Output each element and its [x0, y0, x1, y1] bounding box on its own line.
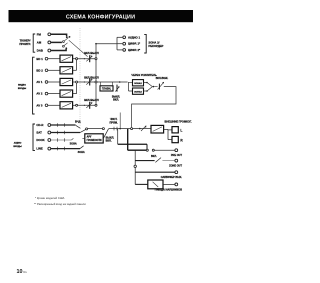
wire zone amp splitter: [129, 82, 133, 91]
label S6: [106, 136, 115, 143]
wire speaker thick lower: [128, 149, 146, 151]
svg-text:10: 10: [17, 269, 23, 275]
main zone box DSP: [100, 86, 113, 91]
svg-text:CD-R: CD-R: [36, 123, 43, 127]
node bus 2: [76, 81, 78, 83]
wire rec stub 1: [117, 36, 122, 38]
node preout 1: [146, 149, 148, 151]
svg-text:ВКЛ./ВЫКЛ: ВКЛ./ВЫКЛ: [84, 75, 99, 79]
converter box U3: [60, 78, 73, 85]
wire rec out: [96, 43, 117, 45]
svg-text:DAB: DAB: [37, 49, 43, 53]
node rec feed: [95, 43, 97, 45]
crossover ticks CD: [58, 123, 65, 127]
jack AM: [48, 41, 51, 44]
wire amp A out: [144, 82, 147, 84]
wire tone box stub left: [82, 137, 84, 139]
jack CD: [48, 124, 51, 127]
wire U5 out: [73, 104, 77, 106]
svg-text:Ru: Ru: [23, 270, 27, 274]
svg-text:AV 2: AV 2: [36, 92, 42, 96]
stub DSP left: [100, 82, 102, 86]
wire AUX1: [48, 93, 60, 95]
svg-text:ЗОНА3: ЗОНА3: [134, 90, 142, 93]
svg-text:ВКЛ./ВЫКЛ: ВКЛ./ВЫКЛ: [84, 51, 99, 55]
switch contact DOCK: [71, 138, 73, 140]
converter box U2: [60, 67, 73, 74]
wire speaker splitter: [168, 129, 172, 139]
svg-text:ВНЕШНИЕ ГРОМКОГ.: ВНЕШНИЕ ГРОМКОГ.: [165, 120, 192, 124]
bracket video inputs group: [33, 57, 35, 114]
node amp A: [146, 82, 148, 84]
switch S7 speaker relay in: [141, 126, 146, 131]
node main bus 3: [95, 104, 97, 106]
jack BD/DVD: [45, 57, 48, 60]
wire STB: [48, 69, 60, 71]
node preout 2: [152, 149, 154, 151]
svg-text:** Расширенный вход на задней: ** Расширенный вход на задней панели: [34, 202, 86, 206]
node input selector: [86, 128, 88, 130]
wire BD/DVD: [48, 58, 60, 60]
wire FM: [51, 34, 67, 36]
svg-text:ГЛАВН.: ГЛАВН.: [102, 88, 112, 91]
crossover ticks TV: [58, 131, 65, 135]
wire TV: [51, 132, 80, 134]
zone amp box B: [133, 88, 144, 94]
svg-text:AV 1: AV 1: [36, 80, 42, 84]
label audio inputs group: [13, 141, 21, 147]
wire speaker thick vertical: [127, 129, 129, 151]
svg-text:L: L: [180, 129, 182, 133]
crossover ticks PHONO: [58, 147, 65, 151]
label rec group: [148, 40, 163, 48]
bracket audio inputs group: [33, 124, 35, 150]
coupling ticks main path: [114, 127, 117, 131]
wire DAB: [51, 49, 66, 51]
svg-text:ПРЯМ.: ПРЯМ.: [109, 120, 118, 124]
jack AUX1: [45, 92, 48, 95]
svg-text:FM: FM: [37, 32, 42, 36]
svg-text:AV 3: AV 3: [36, 103, 42, 107]
wire rec stub 3: [117, 49, 122, 51]
svg-text:BD 2: BD 2: [36, 68, 43, 72]
bus video outputs upper: [76, 59, 78, 71]
label pure direct: [109, 117, 118, 124]
wire zone run 2: [78, 81, 96, 83]
switch S4 main zone: [115, 81, 120, 91]
svg-text:ЗОНА: ЗОНА: [70, 143, 77, 146]
wire main path left: [88, 128, 103, 130]
switch S5 ext amp: [154, 82, 164, 90]
wire AM: [51, 41, 62, 43]
svg-text:LINE: LINE: [36, 147, 43, 151]
svg-text:PRE OUT: PRE OUT: [171, 154, 183, 157]
wire phones feed: [135, 183, 147, 185]
zone amp box A: [133, 80, 144, 86]
switch contact PHONO: [80, 146, 84, 149]
svg-text:SAT: SAT: [36, 131, 42, 135]
switch S6 tone bypass: [104, 129, 109, 138]
wire AUX2: [48, 104, 60, 106]
wire rec split vertical: [116, 37, 118, 50]
wire CD: [51, 124, 76, 126]
jack DOCK: [48, 139, 51, 142]
selector contacts tuner: [63, 36, 71, 49]
page number: [17, 269, 28, 275]
svg-text:* Кроме моделей США: * Кроме моделей США: [35, 196, 64, 200]
jack PHONO: [48, 147, 51, 150]
jack TV: [48, 131, 51, 134]
converter box U1: [60, 55, 73, 62]
wire zone run 1: [78, 58, 96, 60]
svg-text:ЧЕРЕЗ УСИЛИТЕЛЬ: ЧЕРЕЗ УСИЛИТЕЛЬ: [131, 73, 157, 77]
wire cross merge: [147, 83, 152, 92]
jack DAB: [48, 49, 51, 52]
jack rec 2: [123, 42, 126, 45]
switch S2 zone run 2: [86, 79, 92, 86]
separator zone boundary: [79, 28, 81, 126]
tone box: [85, 134, 103, 143]
jack rec 3: [123, 49, 126, 52]
wire U4 out: [73, 93, 77, 95]
svg-text:ВКЛ.: ВКЛ.: [113, 98, 119, 101]
speaker relay box: [151, 125, 164, 133]
wire subwoofer: [135, 171, 175, 173]
wire U3 out: [73, 81, 77, 83]
node amp B: [146, 90, 148, 92]
wire preout: [154, 149, 174, 151]
crossover ticks DOCK: [58, 138, 65, 142]
switch S3 zone run 3: [86, 102, 92, 109]
wire speaker thick right stub: [146, 144, 148, 150]
jack mid bus: [134, 165, 136, 167]
svg-text:ВИДЕО: ВИДЕО: [18, 84, 26, 86]
svg-text:РЕКОРДЕР: РЕКОРДЕР: [148, 44, 163, 48]
svg-text:BD 1: BD 1: [36, 57, 43, 61]
switch S8 zone out: [155, 158, 174, 163]
node merge: [153, 86, 155, 88]
svg-text:ЦИФР. 1*: ЦИФР. 1*: [128, 42, 141, 46]
svg-text:AM: AM: [37, 41, 42, 45]
stub DSP right: [111, 82, 113, 86]
svg-text:ВХОДЫ: ВХОДЫ: [13, 146, 21, 148]
wire PHONO: [51, 148, 80, 150]
jack preout: [175, 149, 178, 152]
svg-text:ЗОНА2: ЗОНА2: [134, 82, 142, 85]
bus main vertical: [95, 44, 97, 105]
svg-text:ЦИФР. 2*: ЦИФР. 2*: [128, 48, 141, 52]
node tone in: [102, 128, 104, 130]
svg-text:АУДИО: АУДИО: [14, 141, 22, 144]
wire rec stub 2: [117, 43, 122, 45]
bus video outputs lower: [76, 82, 78, 94]
speaker R box: [172, 136, 178, 142]
wire zone out: [135, 160, 154, 162]
node pure direct: [119, 128, 121, 130]
bus output vertical: [134, 150, 136, 184]
jack AUX2: [45, 104, 48, 107]
label video inputs group: [18, 84, 26, 89]
title bar: [9, 10, 194, 22]
node pre relay: [139, 128, 141, 130]
svg-text:ВХОДЫ: ВХОДЫ: [18, 88, 26, 90]
node bus 3: [76, 104, 78, 106]
converter box U4: [60, 90, 73, 97]
svg-text:ПРОИГР.: ПРОИГР.: [19, 42, 31, 46]
bracket tuner group: [33, 34, 35, 52]
svg-text:ГРОМКОСТИ: ГРОМКОСТИ: [87, 139, 102, 142]
phones amp box: [148, 180, 163, 189]
svg-text:ВЧД: ВЧД: [75, 119, 81, 123]
wire speaker thick upper: [118, 143, 147, 145]
svg-text:ТЮНЕР/: ТЮНЕР/: [20, 38, 31, 42]
jack phones: [175, 183, 178, 186]
label S4: [112, 96, 121, 102]
wire relay out: [164, 128, 168, 130]
node loop join: [131, 128, 133, 130]
node bus 1: [76, 58, 78, 60]
wire U1 out: [73, 58, 77, 60]
jack FM: [48, 33, 51, 36]
switch S1 zone run 1: [86, 55, 92, 62]
wire amp B out: [144, 90, 147, 92]
jack rec 1: [123, 36, 126, 39]
label tuner group: [19, 38, 31, 46]
jack STB: [45, 69, 48, 72]
wire U2 out: [73, 69, 77, 71]
wire main zone: [97, 81, 128, 83]
node main bus 1: [95, 58, 97, 60]
svg-text:ГНЕЗДА НАУШНИКОВ: ГНЕЗДА НАУШНИКОВ: [155, 188, 182, 191]
jack subwoofer: [175, 171, 178, 174]
svg-text:ZONE OUT: ZONE OUT: [169, 164, 182, 167]
wire ext amp loop: [132, 87, 176, 130]
converter box U5: [60, 102, 73, 109]
selector contact ticks: [64, 38, 68, 46]
wire DOCK: [51, 139, 72, 141]
wire phones out: [163, 183, 175, 185]
svg-text:ВКЛ.: ВКЛ.: [151, 155, 157, 158]
svg-text:САБВУФЕР ВЫХ.: САБВУФЕР ВЫХ.: [161, 176, 183, 179]
wire GAME: [48, 81, 60, 83]
svg-text:АУДИО 1: АУДИО 1: [128, 35, 140, 39]
wire tone return vertical: [117, 129, 119, 144]
svg-text:ВКЛ.: ВКЛ.: [106, 139, 112, 143]
node main bus 2: [95, 81, 97, 83]
svg-text:ВКЛ./ВЫК.: ВКЛ./ВЫК.: [156, 77, 169, 80]
svg-text:ВКЛ./ВЫКЛ: ВКЛ./ВЫКЛ: [84, 98, 99, 102]
speaker L box: [172, 127, 178, 133]
jack zone out: [175, 159, 178, 162]
jack GAME: [45, 81, 48, 84]
wire zone run 3: [78, 104, 96, 106]
svg-text:DOCK: DOCK: [36, 138, 44, 142]
switch contact CD: [76, 125, 81, 128]
bracket rec group: [144, 34, 146, 53]
wire main path mid: [109, 128, 151, 130]
switch contact TV: [80, 129, 86, 132]
svg-text:СХЕМА КОНФИГУРАЦИИ: СХЕМА КОНФИГУРАЦИИ: [66, 14, 135, 20]
svg-text:ЗОНА: ЗОНА: [78, 151, 85, 154]
selector wiper tuner: [69, 40, 88, 56]
wire pure direct stub: [119, 113, 121, 129]
